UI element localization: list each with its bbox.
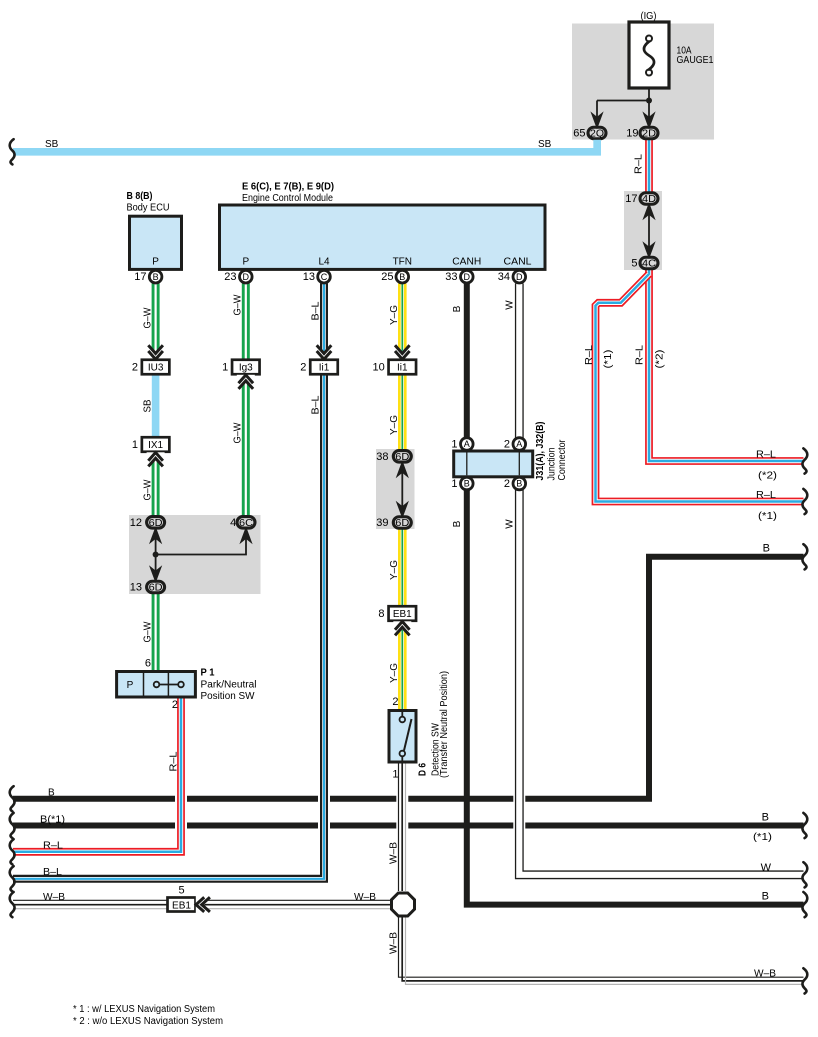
svg-text:J31(A), J32(B): J31(A), J32(B) (535, 422, 546, 481)
connector 19 2D (626, 127, 658, 139)
note *2 w/o LEXUS Navigation System (73, 1016, 223, 1027)
svg-text:38: 38 (376, 451, 388, 463)
svg-text:34: 34 (498, 271, 510, 283)
svg-text:65: 65 (573, 128, 585, 140)
break symbol B(*1) left (10, 813, 15, 838)
svg-text:GAUGE1: GAUGE1 (677, 55, 714, 66)
svg-text:W–B: W–B (754, 969, 776, 980)
svg-text:W–B: W–B (354, 892, 376, 903)
connector pin 13 C below ECM (303, 270, 331, 283)
connector pin 17 B below Body ECU (134, 270, 162, 283)
svg-text:G–W: G–W (142, 479, 153, 501)
connector 4 6C (230, 517, 255, 529)
svg-text:R–L: R–L (634, 154, 645, 174)
D6 Detection SW (Transfer Neutral Position) (389, 671, 450, 781)
svg-text:B: B (452, 305, 463, 312)
svg-text:D: D (243, 272, 250, 282)
arrows below connector EB1 (393, 621, 411, 635)
wire R-L P1 switch pin 2 down then left to left edge (13, 697, 181, 852)
connector 2 A (504, 438, 526, 451)
svg-text:(Transfer Neutral Position): (Transfer Neutral Position) (439, 671, 450, 778)
svg-text:17: 17 (625, 193, 637, 205)
svg-text:R–L: R–L (756, 450, 776, 461)
svg-text:B: B (452, 520, 463, 527)
wire Y-G connector Ii1 to connector 6D pin 38 (398, 375, 407, 451)
svg-text:P 1: P 1 (201, 668, 215, 679)
svg-text:EB1: EB1 (393, 609, 412, 620)
svg-text:D: D (516, 272, 523, 282)
break symbol W-B left (10, 892, 15, 917)
connector 65 2Q (573, 127, 606, 139)
arrows into connector Ii1 (L4) (315, 345, 333, 359)
wire SB connector IU3 to connector IX1 (152, 375, 160, 438)
svg-text:IU3: IU3 (148, 363, 164, 374)
svg-text:R–L: R–L (168, 751, 179, 771)
svg-text:SB: SB (142, 399, 153, 412)
svg-text:Y–G: Y–G (389, 560, 400, 580)
svg-text:4: 4 (230, 517, 236, 529)
break symbol B left (10, 786, 15, 811)
svg-text:G–W: G–W (232, 422, 243, 444)
wire R-L branch to right edge (*1) (596, 274, 804, 502)
connector 2 Ii1 (L4) (300, 360, 337, 375)
svg-text:B: B (516, 479, 522, 489)
connector 1 B (451, 477, 473, 490)
svg-text:1: 1 (451, 439, 457, 451)
Body ECU B 8(B) (127, 191, 182, 270)
connector 1 IX1 (132, 437, 169, 452)
svg-text:25: 25 (381, 271, 393, 283)
connector pin 33 D below ECM (445, 270, 473, 283)
svg-text:R–L: R–L (756, 490, 776, 501)
link arrows between 6D 38 and 6D 39 (398, 464, 406, 516)
svg-text:6: 6 (145, 658, 151, 670)
connector 2 IU3 (132, 360, 169, 375)
junction octagon W-B (392, 893, 415, 916)
svg-text:W–B: W–B (388, 842, 399, 864)
svg-text:23: 23 (224, 271, 236, 283)
wire B ECM CANH pin 33D to junction connector J31 pin 1A (464, 284, 470, 452)
svg-text:B 8(B): B 8(B) (127, 191, 153, 202)
break symbol W-B right (802, 968, 807, 993)
svg-text:8: 8 (378, 608, 384, 620)
wire SB stub below 2Q (593, 140, 601, 152)
shield box connectors 6D/6D (middle) (376, 449, 415, 529)
svg-text:5: 5 (178, 885, 184, 897)
svg-text:(*2): (*2) (758, 471, 777, 482)
svg-text:P: P (127, 680, 134, 691)
wire name labels (horizontal) (40, 139, 777, 980)
svg-text:Ii1: Ii1 (397, 363, 408, 374)
svg-text:(*1): (*1) (758, 511, 777, 522)
svg-text:2: 2 (172, 699, 178, 711)
link arrows between 4D and 4C (645, 206, 653, 257)
svg-text:W: W (505, 300, 516, 310)
connector 17 4D (625, 193, 658, 205)
svg-text:(*2): (*2) (655, 350, 666, 369)
svg-text:Engine Control Module: Engine Control Module (242, 193, 333, 204)
wire G-W Body ECU pin 17B to connector IU3 (152, 284, 160, 360)
connector 12 6D (130, 517, 165, 529)
wire SB main horizontal from left edge to fuse box 2Q (13, 140, 597, 152)
svg-text:C: C (321, 272, 328, 282)
break symbol SB left (10, 139, 15, 164)
connector 39 6D (376, 517, 411, 529)
svg-text:Body ECU: Body ECU (127, 203, 170, 214)
svg-text:10: 10 (373, 362, 385, 374)
svg-text:(*1): (*1) (753, 832, 772, 843)
svg-text:B: B (464, 479, 470, 489)
svg-text:B: B (763, 543, 770, 555)
wire W-B left edge through EB1 to junction (octagon) (13, 900, 391, 908)
arrows left into connector EB1 (bus) (196, 896, 210, 914)
Engine Control Module E6(C) E7(B) E9(D) (220, 181, 546, 269)
svg-text:Position SW: Position SW (201, 691, 256, 702)
arrows below connector Ig3 (237, 375, 255, 389)
wire W ECM CANL pin 34D to junction connector J31 pin 2A (515, 284, 524, 452)
wire B junction connector J31 pin 1B down then right to right edge (467, 476, 804, 905)
svg-text:P: P (152, 257, 159, 268)
wire R-L fuse connector 2D to connector 4D (645, 140, 653, 192)
svg-text:Y–G: Y–G (389, 663, 400, 683)
svg-text:39: 39 (376, 517, 388, 529)
svg-text:IX1: IX1 (148, 440, 163, 451)
svg-text:33: 33 (445, 271, 457, 283)
connector 8 EB1 (378, 606, 416, 621)
wire IG fuse output to connectors 2Q and 2D (593, 88, 653, 126)
wire B-L connector Ii1 down to left edge bus (13, 375, 324, 879)
wire G-W connector 6D pin 13 to P1 switch pin 6 (152, 594, 160, 672)
P1 Park/Neutral Position SW (117, 658, 257, 712)
arrows into connector IU3 (147, 345, 165, 359)
wire B(*1) ground bus full width (13, 823, 804, 829)
svg-text:(IG): (IG) (641, 11, 657, 22)
wire Y-G connector 6D pin 39 to connector EB1 (398, 529, 407, 607)
svg-text:6D: 6D (149, 582, 163, 594)
svg-text:* 2 : w/o LEXUS Navigation Sys: * 2 : w/o LEXUS Navigation System (73, 1016, 223, 1027)
svg-text:B: B (762, 812, 769, 824)
connector 5 EB1 on W-B bus (168, 885, 196, 912)
shield box connectors 4D/4C (right) (624, 191, 662, 270)
svg-text:(*1): (*1) (603, 350, 614, 369)
connector 1 Ig3 (222, 360, 259, 375)
svg-text:2: 2 (392, 696, 398, 708)
connector 2 B (504, 477, 526, 490)
svg-text:D 6: D 6 (418, 763, 429, 776)
wire W junction connector J31 pin 2B down then right to right edge (519, 476, 803, 875)
break symbol R-L (*1) right (802, 489, 807, 514)
link wiring inside shield box (6D/6C to 6D) (151, 530, 250, 581)
svg-text:2: 2 (504, 478, 510, 490)
svg-text:Y–G: Y–G (389, 305, 400, 325)
svg-text:2D: 2D (642, 128, 656, 140)
svg-text:5: 5 (631, 258, 637, 270)
svg-text:B: B (153, 272, 159, 282)
shield box connectors 6D/6C (left) (129, 515, 261, 594)
svg-text:B–L: B–L (311, 301, 322, 320)
fuse 10A GAUGE1 (629, 11, 714, 88)
connector 13 6D (130, 581, 165, 593)
svg-text:1: 1 (451, 478, 457, 490)
break symbol B right top (802, 544, 807, 569)
svg-text:G–W: G–W (142, 307, 153, 329)
svg-text:Ii1: Ii1 (319, 363, 330, 374)
connector pin 34 D below ECM (498, 270, 526, 283)
svg-text:R–L: R–L (43, 841, 63, 852)
svg-text:W: W (505, 519, 516, 529)
wire R-L connector 4C down then right to right edge (*2) (649, 269, 804, 461)
svg-text:2: 2 (504, 439, 510, 451)
svg-text:B: B (762, 891, 769, 903)
connector pin 23 D below ECM (224, 270, 252, 283)
svg-text:1: 1 (132, 439, 138, 451)
break symbol B-L left (10, 866, 15, 891)
connector pin 25 B below ECM (381, 270, 408, 283)
wire Y-G connector EB1 to D6 detection switch pin 2 (398, 621, 407, 711)
svg-text:2Q: 2Q (590, 128, 604, 140)
svg-text:1: 1 (392, 769, 398, 781)
connector 1 A (451, 438, 473, 451)
junction connector J31(A) J32(B) (454, 422, 568, 481)
svg-text:17: 17 (134, 271, 146, 283)
svg-text:Park/Neutral: Park/Neutral (201, 680, 257, 691)
svg-text:R–L: R–L (584, 345, 595, 365)
wire G-W connector Ig3 to connector 6C pin 4 (242, 375, 250, 517)
wire G-W connector IX1 to connector 6D pin 12 (152, 452, 160, 516)
svg-text:B–L: B–L (311, 395, 322, 414)
svg-text:B(*1): B(*1) (40, 815, 65, 826)
arrows below connector IX1 (147, 452, 165, 466)
svg-text:* 1 : w/ LEXUS Navigation Syst: * 1 : w/ LEXUS Navigation System (73, 1004, 215, 1015)
wire W-B D6 detection switch pin 1 to junction (octagon) (399, 762, 406, 891)
connector 10 Ii1 (TFN) (373, 360, 417, 375)
svg-text:Connector: Connector (557, 439, 568, 481)
svg-text:L4: L4 (318, 257, 330, 268)
wire color labels (vertical) (142, 154, 665, 954)
wire W-B junction (octagon) down then right to right edge (399, 917, 804, 984)
svg-text:SB: SB (538, 139, 552, 150)
connector 5 4C (631, 257, 658, 269)
svg-text:CANH: CANH (452, 257, 481, 268)
svg-text:E 6(C), E 7(B), E 9(D): E 6(C), E 7(B), E 9(D) (242, 181, 334, 192)
note *1 w/ LEXUS Navigation System (73, 1004, 215, 1015)
svg-text:B: B (48, 788, 55, 799)
svg-text:4C: 4C (642, 258, 656, 270)
break symbol B(*1) right (802, 813, 807, 838)
break symbol R-L (*2) right (802, 448, 807, 473)
svg-text:TFN: TFN (393, 257, 412, 268)
svg-text:A: A (464, 439, 470, 449)
wire B ground bus: left edge, up at right, to right edge (13, 557, 804, 799)
svg-text:SB: SB (45, 139, 59, 150)
svg-text:13: 13 (130, 582, 142, 594)
wire Y-G ECM pin 25B to connector Ii1 (398, 284, 407, 360)
break symbol B right bottom (802, 892, 807, 917)
svg-text:19: 19 (626, 128, 638, 140)
svg-text:A: A (516, 439, 522, 449)
connector 38 6D (376, 451, 411, 463)
svg-text:2: 2 (300, 362, 306, 374)
svg-text:1: 1 (222, 362, 228, 374)
svg-text:13: 13 (303, 271, 315, 283)
svg-text:W–B: W–B (43, 892, 65, 903)
fuse block shading (IG gauge box) (572, 24, 714, 140)
wire B-L ECM pin 13C to connector Ii1 (320, 284, 328, 360)
svg-text:Y–G: Y–G (389, 415, 400, 435)
svg-text:D: D (464, 272, 471, 282)
arrows into connector Ii1 (TFN) (393, 345, 411, 359)
break symbol R-L left (10, 839, 15, 864)
wire G-W ECM pin 23D to connector Ig3 (242, 284, 250, 360)
svg-text:CANL: CANL (504, 257, 532, 268)
svg-text:B: B (399, 272, 405, 282)
svg-text:6D: 6D (395, 517, 409, 529)
break symbol W right (802, 862, 807, 887)
svg-text:Ig3: Ig3 (239, 363, 253, 374)
svg-text:12: 12 (130, 517, 142, 529)
svg-text:R–L: R–L (635, 345, 646, 365)
svg-text:2: 2 (132, 362, 138, 374)
svg-text:P: P (242, 257, 249, 268)
svg-text:EB1: EB1 (172, 901, 191, 912)
svg-text:W: W (761, 862, 772, 874)
svg-text:G–W: G–W (232, 294, 243, 316)
svg-text:W–B: W–B (388, 932, 399, 954)
svg-text:B–L: B–L (43, 867, 62, 878)
svg-text:G–W: G–W (142, 621, 153, 643)
